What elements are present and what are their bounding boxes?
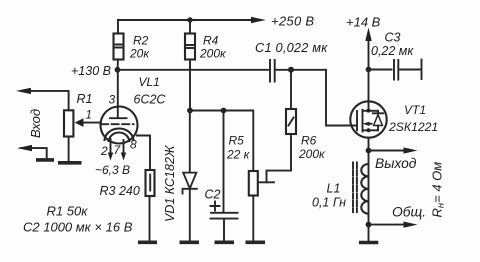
svg-text:VD1 КС182Ж: VD1 КС182Ж <box>163 144 177 222</box>
svg-text:200к: 200к <box>298 147 326 161</box>
svg-text:R3 240: R3 240 <box>100 184 140 198</box>
svg-text:L1: L1 <box>327 182 341 196</box>
svg-text:Общ.: Общ. <box>392 205 426 220</box>
svg-text:C1 0,022 мк: C1 0,022 мк <box>255 40 328 55</box>
svg-text:Rн= 4 Ом: Rн= 4 Ом <box>430 162 447 218</box>
svg-text:R2: R2 <box>133 34 149 48</box>
svg-text:1: 1 <box>86 110 92 122</box>
svg-text:C3: C3 <box>385 31 401 45</box>
svg-text:R4: R4 <box>203 34 219 48</box>
svg-text:0,1 Гн: 0,1 Гн <box>312 196 346 210</box>
svg-text:C2: C2 <box>205 188 221 202</box>
svg-text:22 к: 22 к <box>226 148 251 162</box>
svg-text:R1 50к: R1 50к <box>47 204 89 219</box>
svg-text:+250 В: +250 В <box>271 14 314 29</box>
svg-text:Выход: Выход <box>375 156 417 171</box>
svg-text:VT1: VT1 <box>404 103 426 117</box>
svg-text:3: 3 <box>109 93 116 107</box>
svg-text:0,22 мк: 0,22 мк <box>371 44 414 58</box>
svg-text:C2 1000 мк × 16 В: C2 1000 мк × 16 В <box>23 220 133 235</box>
svg-text:6С2С: 6С2С <box>134 93 167 107</box>
svg-text:200к: 200к <box>199 47 227 61</box>
svg-text:~6,3 В: ~6,3 В <box>95 163 130 177</box>
svg-text:R6: R6 <box>301 134 317 148</box>
svg-text:+130 В: +130 В <box>71 64 111 78</box>
svg-text:VL1: VL1 <box>139 75 160 89</box>
svg-text:R1: R1 <box>77 92 93 106</box>
svg-text:2SК1221: 2SК1221 <box>388 120 438 134</box>
svg-text:Вход: Вход <box>28 109 43 138</box>
svg-text:+14 В: +14 В <box>346 15 381 30</box>
svg-text:20к: 20к <box>129 47 150 61</box>
svg-text:8: 8 <box>130 138 137 152</box>
svg-text:R5: R5 <box>229 134 245 148</box>
svg-text:2: 2 <box>100 144 108 158</box>
